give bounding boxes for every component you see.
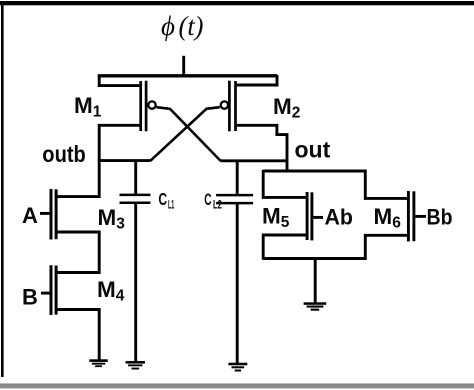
svg-text:B: B — [22, 285, 38, 310]
svg-text:M3: M3 — [98, 205, 126, 233]
svg-text:out: out — [295, 137, 331, 163]
svg-text:L1: L1 — [168, 197, 174, 211]
svg-text:M4: M4 — [97, 277, 125, 305]
svg-text:C: C — [158, 189, 167, 209]
svg-text:Ab: Ab — [325, 205, 354, 230]
svg-text:M5: M5 — [262, 204, 290, 232]
svg-text:L2: L2 — [213, 197, 222, 211]
svg-text:M1: M1 — [74, 93, 102, 121]
svg-text:outb: outb — [42, 141, 86, 167]
svg-text:M2: M2 — [273, 94, 300, 122]
svg-text:Bb: Bb — [427, 205, 453, 230]
svg-text:M6: M6 — [374, 204, 402, 232]
svg-text:A: A — [22, 203, 38, 228]
svg-text:C: C — [204, 190, 211, 209]
svg-text:ϕ: ϕ — [161, 11, 175, 41]
svg-text:(t): (t) — [179, 11, 204, 41]
